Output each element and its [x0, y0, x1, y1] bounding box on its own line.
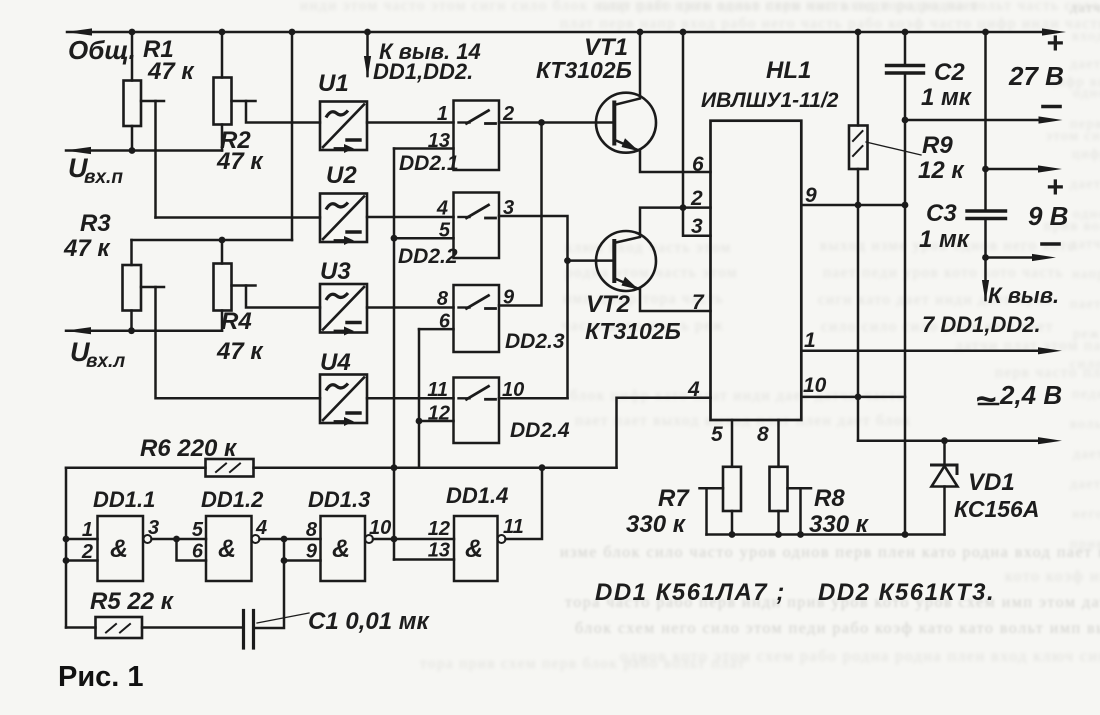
svg-text:датчи тора: датчи тора [1070, 237, 1100, 252]
terminal arrow pin7 (down) [982, 280, 989, 302]
wire: C3 top lead from bus [984, 32, 987, 211]
wire: R4 tap bar [232, 284, 256, 287]
svg-text:DD1 К561ЛА7 ;: DD1 К561ЛА7 ; [595, 579, 786, 606]
pin label 13 (DD2.1) [428, 130, 450, 152]
svg-text:8: 8 [306, 519, 318, 541]
wire: DD2.2 pin5 stub [394, 237, 454, 240]
wire: VT2 collector to pin2 [616, 208, 711, 243]
svg-text:12: 12 [428, 518, 450, 540]
terminal arrow pin1 rail [1038, 347, 1062, 354]
svg-text:HL1: HL1 [766, 57, 811, 84]
svg-text:6: 6 [192, 541, 204, 563]
wire: R1 tap vertical down to U2 input [154, 101, 157, 218]
label Uвх.л [70, 337, 125, 372]
label КС156А [954, 496, 1039, 522]
zener diode VD1 [932, 441, 958, 535]
wire: pin3 link [683, 208, 711, 236]
wire: DD2.2 out3 to VT2 base net [499, 216, 568, 398]
R9 leader line [866, 142, 921, 155]
svg-text:3: 3 [148, 517, 159, 539]
wire: U4 output to DD2.4 pin11 [367, 397, 454, 400]
wire: VT1 emitter [616, 141, 711, 173]
node: x66-pin2 [63, 557, 70, 564]
label DD2.1 [399, 152, 459, 175]
wire: out4 to pin8 [260, 538, 321, 541]
wire: pin5 lead [731, 420, 734, 467]
label + (9V) [1046, 171, 1064, 204]
pin label 13 (DD1.4) [428, 540, 450, 562]
label Uвх.п [68, 153, 123, 188]
logic gate DD1.1 box [98, 516, 144, 581]
pin label 6 (DD1.2) [192, 541, 204, 563]
converter U3 box [320, 284, 367, 336]
resistor R4 body [214, 264, 232, 311]
svg-text:1: 1 [82, 519, 93, 541]
wire: R5 to C1 [142, 626, 244, 629]
svg-text:R7: R7 [658, 485, 690, 512]
node: out3-pin6 branch [173, 536, 180, 543]
svg-text:блок схем него сило этом педи: блок схем него сило этом педи рабо коэф … [575, 620, 1100, 637]
svg-text:C1 0,01 мк: C1 0,01 мк [308, 608, 430, 635]
label C1 0,01 мк [308, 608, 430, 635]
label R6 220 к [140, 435, 238, 462]
pin label 12 (DD2.4) [428, 403, 450, 425]
DD1.2 output bubble [252, 535, 260, 543]
svg-text:10: 10 [369, 517, 391, 539]
label U1 [318, 70, 349, 97]
pin label 4 (DD2.2) [436, 198, 448, 220]
label C3 [926, 200, 957, 227]
label 27 В [1008, 61, 1064, 91]
svg-text:него выход: него выход [1072, 507, 1100, 522]
label DD1.1 [93, 487, 155, 512]
wire: R8 bottom lead [777, 511, 780, 535]
wire: pin9/C1 branch [254, 539, 285, 628]
svg-text:реж напр: реж напр [1073, 327, 1100, 342]
wire: vertical x394 (pins 13,5,... to DD1.4) [393, 149, 396, 560]
node: out11-y467.7 [539, 464, 546, 471]
wire: DD2.3 out9 riser [499, 123, 542, 306]
svg-text:КТ3102Б: КТ3102Б [536, 57, 632, 83]
svg-text:R5 22 к: R5 22 к [90, 588, 175, 615]
wire: to pin14 DD1,DD2 stub [366, 32, 369, 76]
svg-text:DD1.3: DD1.3 [308, 487, 370, 512]
svg-text:330 к: 330 к [626, 511, 687, 538]
wire: Uвх.л input line [66, 329, 222, 332]
wire: 2.4V rail [858, 439, 1038, 442]
background bleed-through text [300, 0, 1100, 672]
wire: DD2.4 pin12 stub [419, 420, 454, 423]
wire: bus to pin2 vertical x683 [682, 32, 685, 208]
svg-text:2: 2 [690, 187, 703, 210]
pin label 11 (DD2.4) [427, 379, 448, 401]
svg-text:дает напр: дает напр [1070, 177, 1100, 192]
wire: to pin7 DD1,DD2 stub [984, 258, 987, 301]
svg-text:DD2.4: DD2.4 [510, 419, 570, 442]
svg-text:КС156А: КС156А [954, 496, 1039, 522]
wire: out3 to pin5 [152, 538, 207, 541]
pin label 3 (HL1) [691, 215, 703, 238]
resistor R7 body [723, 467, 741, 511]
converter U1 box [320, 102, 367, 154]
pin label 9 (DD1.3) [306, 541, 318, 563]
svg-text:вольт изме: вольт изме [1070, 417, 1100, 432]
DD1.1 output bubble [144, 535, 152, 543]
logic gate DD1.3 box [321, 516, 366, 581]
svg-text:5: 5 [711, 423, 723, 446]
svg-text:47 к: 47 к [216, 148, 264, 175]
pin label 6 (HL1) [692, 153, 704, 176]
wire: R1tap/U2 input line y217.5 [156, 216, 321, 219]
svg-text:+: + [1046, 171, 1064, 204]
svg-text:DD1.1: DD1.1 [93, 487, 155, 512]
wire: R2 bottom lead [221, 125, 224, 151]
wire: R5 left wire [66, 626, 96, 629]
label 1 мк (C3) [919, 226, 971, 253]
display HL1 box [711, 121, 802, 420]
wire: DD1.1 pin1 stub [66, 538, 98, 541]
svg-text:&: & [218, 535, 236, 563]
wire: out11 riser [506, 468, 543, 539]
pin label 8 (HL1) [757, 423, 769, 446]
svg-text:+: + [1046, 27, 1064, 60]
resistor R5 body [96, 617, 143, 638]
wire: R4 tap to U3 input [246, 286, 320, 308]
label 7 DD1,DD2. [922, 312, 1041, 337]
label 12 к [918, 157, 965, 184]
svg-text:~: ~ [975, 378, 996, 419]
label DD1.3 [308, 487, 370, 512]
label 1 мк (C2) [921, 84, 973, 111]
svg-text:напр часто: напр часто [1072, 267, 1100, 282]
wire: DD1.1 pin2 stub [66, 559, 98, 562]
node: bus-C2 [902, 29, 909, 36]
svg-text:U2: U2 [326, 162, 357, 189]
pin label 3 (DD1.1) [148, 517, 159, 539]
svg-text:3: 3 [691, 215, 703, 238]
wire: bottom rail R7-R8-VD1 [707, 533, 945, 536]
wire: DD2.1 out2 to VT1 base [499, 121, 613, 124]
label VT1 [584, 34, 628, 61]
capacitor C2 plates [887, 66, 924, 74]
svg-text:DD1,DD2.: DD1,DD2. [373, 59, 473, 84]
label 9 В [1028, 201, 1068, 231]
label DD1.4 [446, 483, 508, 508]
svg-text:КТ3102Б: КТ3102Б [585, 318, 681, 344]
svg-text:педи перв: педи перв [1072, 387, 1100, 402]
svg-text:47 к: 47 к [147, 58, 195, 85]
svg-text:DD2.1: DD2.1 [399, 152, 459, 175]
svg-text:DD2.2: DD2.2 [398, 245, 458, 268]
node: bus-R1 [129, 29, 136, 36]
wire: R9 bottom lead (to 2.4V rail) [857, 169, 860, 441]
wire: U2 output to DD2.2 pin4 [367, 216, 454, 219]
pin label 9 (DD2.3) [503, 287, 515, 309]
svg-text:47 к: 47 к [216, 338, 264, 365]
label C2 [934, 59, 965, 86]
DD1.4 output bubble [498, 535, 506, 543]
svg-text:6: 6 [692, 153, 704, 176]
node: R4 top junction [219, 237, 226, 244]
svg-text:2: 2 [81, 541, 93, 563]
terminal arrow 27V- [1039, 116, 1063, 123]
node: bus-vertical x292 [289, 29, 296, 36]
node: bus-pins2,3 vertical [680, 29, 687, 36]
wire: R7 tap [700, 488, 724, 534]
wire: x905 vertical (pin9 to bottom rail) [904, 120, 907, 535]
svg-text:ИВЛШУ1-11/2: ИВЛШУ1-11/2 [701, 89, 839, 112]
svg-text:9: 9 [805, 184, 817, 207]
pin label 3 (DD2.2) [503, 197, 514, 219]
caption Рис. 1 [58, 661, 144, 693]
logic gate DD1.4 box [454, 516, 498, 581]
svg-text:8: 8 [437, 288, 449, 310]
wire: C2 bottom lead [904, 73, 907, 120]
svg-text:цифр плен: цифр плен [1072, 147, 1100, 162]
label DD2.2 [398, 245, 458, 268]
wire: 9V minus rail [986, 256, 1033, 259]
label DD2.3 [505, 330, 565, 353]
node: out10-x394 [391, 536, 398, 543]
pin label 8 (DD1.3) [306, 519, 318, 541]
svg-text:1 мк: 1 мк [919, 226, 971, 253]
pin label 1 (HL1) [804, 329, 816, 352]
analog switch DD2.2 box [454, 193, 500, 259]
svg-text:Рис. 1: Рис. 1 [58, 661, 144, 693]
wire: bus to R3-top vertical x292 [291, 32, 294, 240]
svg-text:13: 13 [428, 540, 450, 562]
pin label 5 (HL1) [711, 423, 723, 446]
svg-text:1 мк: 1 мк [921, 84, 973, 111]
wire: R3 top lead [130, 240, 133, 265]
svg-text:7 DD1,DD2.: 7 DD1,DD2. [922, 312, 1041, 337]
terminal arrow Uвх.л [65, 327, 91, 334]
svg-text:однов часть: однов часть [1073, 86, 1100, 101]
pin label 10 (DD1.3) [369, 517, 391, 539]
label ≃2,4 В [975, 378, 1062, 419]
node: x394-pin5 [391, 235, 398, 242]
label R8 [814, 485, 845, 512]
svg-text:VT2: VT2 [586, 291, 631, 318]
svg-text:7: 7 [692, 291, 705, 314]
node: 9V- junction [982, 254, 989, 261]
svg-text:датчи изме: датчи изме [1070, 1, 1100, 16]
svg-text:5: 5 [192, 519, 204, 541]
VT2 emitter arrow [622, 277, 640, 290]
label К выв. 14 [379, 39, 481, 64]
VT1 emitter arrow [622, 138, 640, 151]
svg-text:47 к: 47 к [63, 235, 111, 262]
label DD1.2 [201, 487, 264, 512]
pin label 2 (HL1) [690, 187, 703, 210]
label R2 [220, 127, 251, 154]
wire: horizontal y467.7 (R6 out to pin4 riser) [254, 466, 617, 469]
R6 power marks [216, 464, 240, 473]
label ИВЛШУ1-11/2 [701, 89, 839, 112]
wire: Uвх.п input line [66, 149, 222, 152]
label R3 [80, 210, 111, 237]
label 47 к (R1) [147, 58, 195, 85]
svg-text:кото коэф инди цифр като: кото коэф инди цифр като [1005, 568, 1100, 585]
label 47 к (R4) [216, 338, 264, 365]
terminal arrow to pin14 (down) [364, 56, 371, 78]
svg-text:C3: C3 [926, 200, 957, 227]
R5 power marks [106, 624, 130, 633]
terminal arrow Общ (left) [66, 28, 92, 35]
svg-text:DD2 К561КТ3.: DD2 К561КТ3. [818, 579, 995, 606]
wire: 9V plus rail [986, 168, 1039, 171]
node: C2-27V- rail [902, 117, 909, 124]
wire: 27V minus rail [905, 119, 1038, 122]
svg-text:9: 9 [306, 541, 318, 563]
svg-text:11: 11 [427, 379, 448, 401]
wire: U1 output to DD2.1 pin1 [367, 121, 454, 124]
wire: R1 top lead [131, 32, 134, 81]
svg-text:Общ.: Общ. [68, 35, 136, 65]
label R7 [658, 485, 690, 512]
svg-text:DD1.4: DD1.4 [446, 483, 508, 508]
label 330 к (R7) [626, 511, 687, 538]
pin label 8 (DD2.3) [437, 288, 449, 310]
svg-text:2,4 В: 2,4 В [999, 380, 1062, 410]
svg-text:11: 11 [503, 516, 524, 538]
svg-text:U3: U3 [320, 258, 351, 285]
svg-text:1: 1 [804, 329, 816, 352]
label Общ. [68, 35, 136, 65]
wire: pin6 branch [177, 539, 207, 561]
label R5 22 к [90, 588, 175, 615]
resistor R1 body [124, 81, 142, 127]
svg-text:сило уров: сило уров [1070, 357, 1100, 372]
pin label 1 (DD2.1) [437, 103, 448, 125]
wire: R7 bottom lead [731, 511, 734, 535]
R9 power marks [853, 131, 863, 156]
pin label 5 (DD2.2) [439, 220, 451, 242]
wire: VT2 base [568, 259, 613, 262]
pin label 9 (HL1) [805, 184, 817, 207]
analog switch DD2.3 box [454, 285, 500, 352]
svg-text:R8: R8 [814, 485, 845, 512]
wire: R3 tap bar [141, 286, 164, 289]
label DD2.4 [510, 419, 570, 442]
wire: VT2 emitter to pin7 [616, 279, 711, 311]
label U4 [320, 349, 351, 376]
transistor VT1 base bar [612, 103, 616, 144]
capacitor C3 plates [967, 211, 1006, 219]
wire: common bus (Общ.) y=32 [67, 31, 1042, 34]
wire: DD2.1 pin13 from vertical x394 [394, 147, 454, 150]
wire: R3 bottom lead [130, 311, 133, 331]
wire: R1 bottom lead [131, 126, 134, 151]
wire: pin8 lead [777, 420, 780, 467]
node: bus-Kvyv14 [364, 29, 371, 36]
resistor R8 body [770, 467, 788, 511]
svg-text:дает уров: дает уров [1070, 57, 1100, 72]
svg-text:4: 4 [255, 517, 267, 539]
label DD1 К561ЛА7 [595, 579, 786, 606]
svg-text:вход инди: вход инди [1072, 29, 1100, 44]
pin label 5 (DD1.2) [192, 519, 204, 541]
converter U2 box [320, 194, 367, 246]
wire: VT1 collector [616, 32, 640, 105]
svg-text:10: 10 [803, 374, 827, 397]
label 330 к (R8) [809, 511, 870, 538]
svg-text:U4: U4 [320, 349, 351, 376]
label DD2 К561КТ3 [818, 579, 995, 606]
wire: DD2.4 out10 [499, 397, 568, 400]
label 47 к (R2) [216, 148, 264, 175]
svg-text:27 В: 27 В [1008, 61, 1064, 91]
terminal arrow Uвх.п [65, 147, 91, 154]
pin label 6 (DD2.3) [439, 311, 451, 333]
pin label 11 (DD1.4) [503, 516, 524, 538]
resistor R6 body [206, 459, 254, 477]
transistor VT2 circle [596, 231, 656, 291]
node: 9V+ junction [982, 166, 989, 173]
svg-text:8: 8 [757, 423, 769, 446]
svg-text:R9: R9 [922, 132, 953, 159]
analog switch DD2.1 box [454, 101, 500, 171]
pin label 1 (DD1.1) [82, 519, 93, 541]
wire: out10 to pin12 [373, 538, 454, 541]
wire: pin4 line [617, 398, 711, 468]
label minus 9V [1042, 242, 1059, 246]
svg-text:12 к: 12 к [918, 157, 965, 184]
label КТ3102Б (VT1) [536, 57, 632, 83]
label VD1 [968, 469, 1015, 496]
node: rail-x905 [902, 531, 909, 538]
wire: R9 top lead [857, 32, 860, 126]
pin label 4 (DD1.2) [255, 517, 267, 539]
terminal arrow 9V+ [1038, 165, 1062, 172]
node: bus-C3 [982, 29, 989, 36]
svg-text:4: 4 [436, 198, 448, 220]
wire: R4 bottom lead [221, 311, 224, 331]
svg-text:дает него: дает него [1073, 447, 1100, 462]
transistor VT1 circle [596, 93, 656, 153]
converter U4 box [320, 375, 367, 427]
wire: R8 tap [788, 488, 812, 534]
transistor VT2 base bar [612, 241, 616, 281]
terminal arrow 9V- [1032, 254, 1056, 261]
svg-text:9 В: 9 В [1028, 201, 1068, 231]
wire: R2 tap bar [232, 100, 256, 103]
node: bus-R2 [219, 29, 226, 36]
svg-text:пает вольт: пает вольт [1070, 297, 1100, 312]
node: VT2 base junction [564, 257, 571, 264]
svg-text:&: & [465, 535, 483, 563]
wire: R2 top lead [221, 32, 224, 78]
analog switch DD2.4 box [454, 378, 500, 444]
svg-text:вх.п: вх.п [84, 167, 123, 188]
label DD1,DD2. [373, 59, 473, 84]
wire: pin9 line [801, 204, 905, 207]
pin label 12 (DD1.4) [428, 518, 450, 540]
wire: R3 top line y240 [132, 239, 293, 242]
svg-text:DD1.2: DD1.2 [201, 487, 264, 512]
node: rail-R8 [775, 531, 782, 538]
label minus 27V [1043, 105, 1060, 109]
wire: C2 top lead [904, 32, 907, 66]
svg-text:R6 220 к: R6 220 к [140, 435, 238, 462]
svg-text:вх.л: вх.л [86, 351, 125, 372]
svg-text:&: & [332, 535, 350, 563]
capacitor C1 plates [244, 611, 254, 649]
terminal arrow +27V (right end of bus) [1042, 28, 1066, 35]
svg-text:тора прив схем перв блок рабо: тора прив схем перв блок рабо вольт плат [420, 656, 746, 672]
logic gate DD1.2 box [206, 516, 252, 581]
node: VD1-rail [941, 437, 948, 444]
